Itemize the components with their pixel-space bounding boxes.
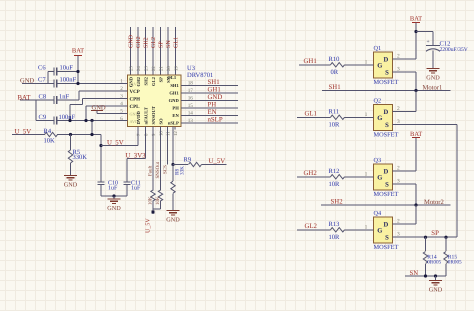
svg-text:nSLP: nSLP [208, 116, 223, 123]
svg-text:nSLP: nSLP [168, 121, 179, 126]
svg-text:EN: EN [208, 109, 217, 116]
svg-text:MOSFET: MOSFET [374, 79, 399, 86]
svg-text:GL1: GL1 [174, 37, 180, 48]
svg-text:17: 17 [188, 88, 194, 94]
svg-text:12: 12 [173, 131, 179, 136]
svg-text:21: 21 [159, 66, 165, 71]
svg-text:Q3: Q3 [374, 157, 382, 164]
svg-text:Q2: Q2 [374, 98, 382, 105]
svg-text:GND: GND [129, 34, 135, 48]
svg-text:SH2: SH2 [144, 76, 149, 85]
svg-text:GND: GND [64, 182, 78, 189]
svg-text:GL1: GL1 [305, 111, 317, 118]
svg-text:33K: 33K [180, 166, 186, 175]
svg-text:D: D [384, 56, 389, 63]
svg-text:10uF: 10uF [60, 65, 74, 72]
svg-text:SP: SP [431, 230, 439, 237]
svg-text:16: 16 [188, 96, 194, 102]
svg-text:D: D [384, 168, 389, 175]
svg-text:1uF: 1uF [108, 185, 118, 191]
svg-text:10: 10 [159, 131, 165, 136]
svg-text:100nF: 100nF [59, 114, 76, 121]
svg-text:U_3V3: U_3V3 [126, 153, 147, 160]
svg-text:10K: 10K [155, 196, 161, 205]
svg-text:Motor2: Motor2 [424, 199, 444, 206]
svg-text:C6: C6 [38, 65, 46, 72]
svg-text:PH: PH [172, 106, 179, 111]
svg-text:GL2: GL2 [151, 76, 156, 86]
svg-text:GND: GND [107, 205, 121, 212]
svg-text:BAT: BAT [410, 15, 422, 22]
svg-text:D: D [384, 221, 389, 228]
svg-text:10K: 10K [148, 196, 154, 205]
svg-text:SP: SP [159, 41, 165, 48]
svg-text:U_5V: U_5V [209, 158, 226, 165]
svg-text:S: S [385, 70, 389, 77]
svg-text:14: 14 [188, 111, 194, 117]
svg-text:U_5V: U_5V [146, 218, 152, 233]
svg-text:GL2: GL2 [305, 223, 318, 230]
svg-text:GH1: GH1 [208, 86, 221, 93]
svg-text:10R: 10R [329, 234, 341, 241]
svg-text:SN: SN [166, 76, 171, 83]
svg-text:G: G [377, 175, 382, 182]
svg-text:330K: 330K [73, 154, 88, 161]
svg-text:20: 20 [166, 66, 172, 71]
svg-text:GND: GND [166, 217, 180, 224]
svg-text:GH1: GH1 [169, 91, 179, 96]
svg-text:BAT: BAT [72, 48, 84, 55]
svg-text:R11: R11 [329, 109, 340, 116]
svg-text:G: G [377, 63, 382, 70]
svg-text:Q1: Q1 [374, 45, 382, 52]
svg-text:8: 8 [144, 133, 150, 136]
svg-text:CPH: CPH [130, 97, 141, 103]
svg-text:R9: R9 [184, 157, 192, 164]
svg-text:SN: SN [166, 40, 172, 48]
svg-text:Fault: Fault [147, 165, 153, 176]
svg-text:19: 19 [174, 66, 180, 71]
svg-text:VCP: VCP [130, 89, 140, 95]
svg-text:GL2: GL2 [151, 37, 157, 48]
svg-text:9: 9 [151, 133, 157, 136]
svg-text:GND: GND [129, 76, 134, 87]
svg-text:24: 24 [136, 66, 142, 71]
svg-text:MOSFET: MOSFET [374, 132, 399, 139]
svg-text:SN: SN [410, 270, 419, 277]
svg-text:SO: SO [159, 118, 164, 125]
svg-text:SP: SP [159, 77, 164, 83]
svg-text:C7: C7 [38, 77, 46, 84]
svg-text:23: 23 [144, 66, 150, 71]
svg-text:0R005: 0R005 [448, 260, 462, 266]
svg-text:SH1: SH1 [170, 83, 179, 88]
svg-text:G: G [377, 228, 382, 235]
svg-text:CPL: CPL [130, 104, 141, 110]
svg-text:nFAULT: nFAULT [144, 107, 149, 124]
svg-text:0R005: 0R005 [427, 260, 441, 266]
svg-text:SH2: SH2 [331, 199, 344, 206]
svg-text:18: 18 [188, 81, 194, 87]
svg-text:S: S [385, 182, 389, 189]
svg-text:R4: R4 [44, 128, 52, 135]
svg-text:G: G [377, 115, 382, 122]
svg-text:PH: PH [208, 101, 217, 108]
svg-text:+: + [427, 39, 430, 45]
svg-text:GND: GND [429, 287, 443, 294]
svg-text:1uF: 1uF [131, 185, 141, 191]
svg-text:C9: C9 [39, 114, 47, 121]
svg-text:GH2: GH2 [136, 76, 141, 86]
svg-text:EN: EN [172, 113, 179, 118]
svg-text:R13: R13 [329, 221, 340, 228]
svg-text:S: S [385, 235, 389, 242]
svg-text:GND: GND [20, 78, 34, 85]
svg-text:GH2: GH2 [304, 170, 318, 177]
svg-text:R12: R12 [329, 168, 340, 175]
svg-text:S: S [385, 122, 389, 129]
svg-text:U_5V: U_5V [107, 139, 124, 146]
svg-text:SNSOut: SNSOut [155, 161, 161, 178]
svg-text:2200uF/35V: 2200uF/35V [440, 47, 468, 53]
svg-text:MOSFET: MOSFET [374, 191, 399, 198]
svg-text:22: 22 [151, 66, 157, 71]
svg-text:SH1: SH1 [208, 79, 220, 86]
svg-text:Q4: Q4 [374, 210, 383, 217]
svg-text:6: 6 [120, 116, 123, 122]
svg-text:GND: GND [208, 94, 223, 101]
svg-text:GH1: GH1 [304, 58, 317, 65]
svg-text:13: 13 [188, 118, 194, 124]
svg-text:D: D [384, 109, 389, 116]
svg-text:SH1: SH1 [329, 84, 341, 91]
svg-text:GND: GND [426, 75, 440, 82]
svg-text:Motor1: Motor1 [423, 84, 443, 91]
svg-text:MOSFET: MOSFET [374, 244, 399, 251]
svg-text:BAT: BAT [410, 131, 422, 138]
svg-text:DVDD: DVDD [136, 111, 141, 125]
svg-text:GND: GND [169, 98, 180, 103]
svg-text:GH2: GH2 [136, 36, 142, 48]
svg-text:11: 11 [166, 131, 172, 136]
svg-text:100nF: 100nF [60, 77, 77, 84]
svg-text:1nF: 1nF [59, 93, 70, 100]
svg-text:R10: R10 [329, 56, 340, 63]
svg-text:10R: 10R [329, 121, 341, 128]
svg-text:SH2: SH2 [144, 37, 150, 48]
svg-text:10R: 10R [329, 181, 341, 188]
svg-text:25: 25 [129, 66, 135, 71]
svg-text:BAT: BAT [18, 95, 32, 102]
svg-text:C8: C8 [39, 93, 47, 100]
svg-text:10K: 10K [44, 137, 56, 144]
svg-text:SNSOUT: SNSOUT [151, 106, 156, 124]
svg-text:15: 15 [188, 103, 194, 109]
svg-text:DRV8701: DRV8701 [187, 72, 213, 79]
svg-text:SCS: SCS [162, 165, 168, 174]
svg-text:0R: 0R [331, 69, 339, 76]
svg-text:7: 7 [136, 133, 142, 136]
